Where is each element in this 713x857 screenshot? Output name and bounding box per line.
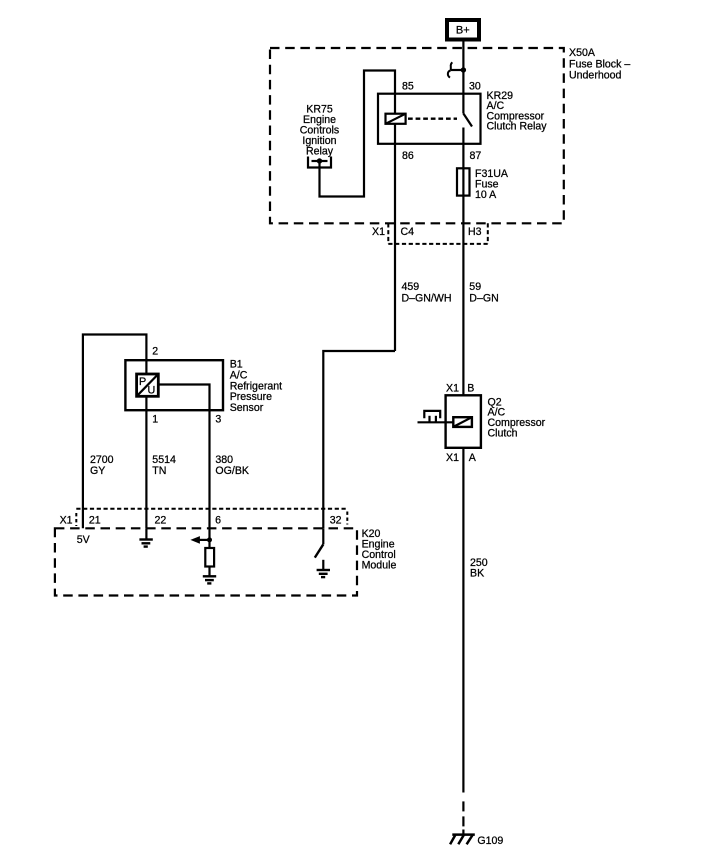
svg-text:P: P	[139, 376, 146, 388]
resistor at ECM pin 6	[205, 548, 214, 567]
svg-text:H3: H3	[468, 226, 482, 238]
svg-text:G109: G109	[477, 835, 503, 847]
svg-text:Fuse Block –: Fuse Block –	[569, 58, 630, 70]
svg-text:86: 86	[402, 150, 414, 162]
svg-text:Underhood: Underhood	[569, 70, 622, 82]
wire KR75 feed to relay pin 85	[320, 71, 396, 197]
signal arrow at ECM pin 6	[190, 528, 212, 548]
label K20 Engine Control Module	[362, 528, 397, 572]
label B1 A/C Refrigerant Pressure Sensor	[230, 359, 282, 415]
label F31UA Fuse 10 A	[475, 168, 509, 201]
label X50A Fuse Block - Underhood	[569, 47, 630, 82]
wire sensor output to pin 3	[158, 385, 209, 529]
wire label 380 OG/BK	[215, 454, 249, 477]
svg-text:32: 32	[330, 515, 342, 527]
wire label 459 D-GN/WH	[402, 281, 452, 304]
wire Q2 pin A to ground	[462, 448, 464, 793]
svg-text:459: 459	[402, 281, 420, 293]
pressure transducer P/U symbol	[137, 374, 159, 397]
svg-text:59: 59	[469, 281, 481, 293]
svg-text:U: U	[148, 385, 156, 397]
svg-text:1: 1	[152, 414, 158, 426]
svg-text:BK: BK	[470, 567, 484, 579]
ECM K20 dashed box	[55, 528, 357, 595]
svg-text:Clutch: Clutch	[488, 428, 518, 440]
connector X1 (fuse block) dashed outline	[388, 223, 488, 244]
mechanical clutch linkage symbol	[418, 411, 454, 422]
svg-text:C4: C4	[401, 226, 415, 238]
svg-text:Clutch Relay: Clutch Relay	[487, 121, 548, 133]
svg-text:5V: 5V	[77, 534, 91, 546]
svg-text:5514: 5514	[152, 454, 176, 466]
svg-text:X1: X1	[372, 226, 385, 238]
relay switch	[463, 94, 472, 144]
ground at ECM pin 22	[139, 528, 152, 546]
wire label 59 D-GN	[469, 281, 498, 304]
svg-text:OG/BK: OG/BK	[215, 465, 249, 477]
switch at ECM pin 32	[315, 528, 324, 557]
svg-text:3: 3	[215, 414, 221, 426]
svg-text:Sensor: Sensor	[230, 402, 264, 414]
wire relay pin 86 to connector C4	[394, 144, 396, 351]
ground at ECM pin 6	[203, 567, 216, 584]
svg-text:X1: X1	[446, 452, 459, 464]
svg-text:B: B	[467, 383, 474, 395]
relay KR29 box	[378, 94, 481, 144]
wire C4 to ECM pin 32	[323, 351, 395, 528]
sensor B1 box	[125, 360, 223, 410]
wire label 5514 TN	[152, 454, 176, 477]
label Q2 A/C Compressor Clutch	[488, 396, 546, 439]
svg-text:380: 380	[215, 454, 233, 466]
dashed wire to G109	[462, 801, 464, 826]
svg-text:X1: X1	[60, 515, 73, 527]
svg-text:TN: TN	[152, 465, 166, 477]
svg-text:2700: 2700	[90, 454, 114, 466]
svg-text:X1: X1	[446, 383, 459, 395]
fuse F31UA	[457, 168, 470, 195]
relay actuating dashed link	[408, 117, 457, 119]
wire sensor pin 2 jog	[83, 335, 146, 529]
wire label 2700 GY	[90, 454, 114, 477]
svg-text:Relay: Relay	[306, 145, 334, 157]
relay KR75 feed symbol	[308, 157, 331, 168]
clutch coil	[453, 417, 472, 427]
svg-text:Module: Module	[362, 560, 397, 572]
ground G109 symbol	[450, 830, 475, 845]
battery positive tap symbol	[448, 62, 466, 77]
compressor clutch Q2 box	[446, 395, 481, 448]
ground at ECM pin 32	[317, 560, 330, 577]
svg-text:B+: B+	[456, 25, 470, 37]
relay coil	[386, 114, 406, 124]
label KR29 A/C Compressor Clutch Relay	[487, 90, 548, 133]
fuse block X50A dashed box	[270, 48, 564, 223]
svg-text:GY: GY	[90, 465, 105, 477]
wire relay pin 87 through fuse to connector H3	[462, 144, 464, 395]
label KR75 Engine Controls Ignition Relay	[300, 104, 339, 158]
battery terminal B+	[447, 20, 479, 40]
svg-text:D–GN: D–GN	[469, 292, 498, 304]
wire sensor pin 1	[145, 396, 147, 528]
svg-text:85: 85	[402, 81, 414, 93]
relay coil wire pin 85 to 86	[394, 94, 396, 144]
svg-text:2: 2	[152, 345, 158, 357]
svg-text:87: 87	[470, 150, 482, 162]
svg-text:D–GN/WH: D–GN/WH	[402, 292, 452, 304]
svg-text:10 A: 10 A	[475, 189, 497, 201]
svg-text:22: 22	[155, 515, 167, 527]
svg-text:30: 30	[469, 81, 481, 93]
wire label 250 BK	[470, 557, 488, 579]
wire B+ to relay pin 30	[462, 40, 464, 94]
connector X1 (ECM) dashed outline	[76, 509, 347, 526]
svg-text:X50A: X50A	[569, 47, 596, 59]
svg-text:6: 6	[215, 515, 221, 527]
svg-text:A: A	[469, 452, 477, 464]
svg-text:21: 21	[89, 515, 101, 527]
